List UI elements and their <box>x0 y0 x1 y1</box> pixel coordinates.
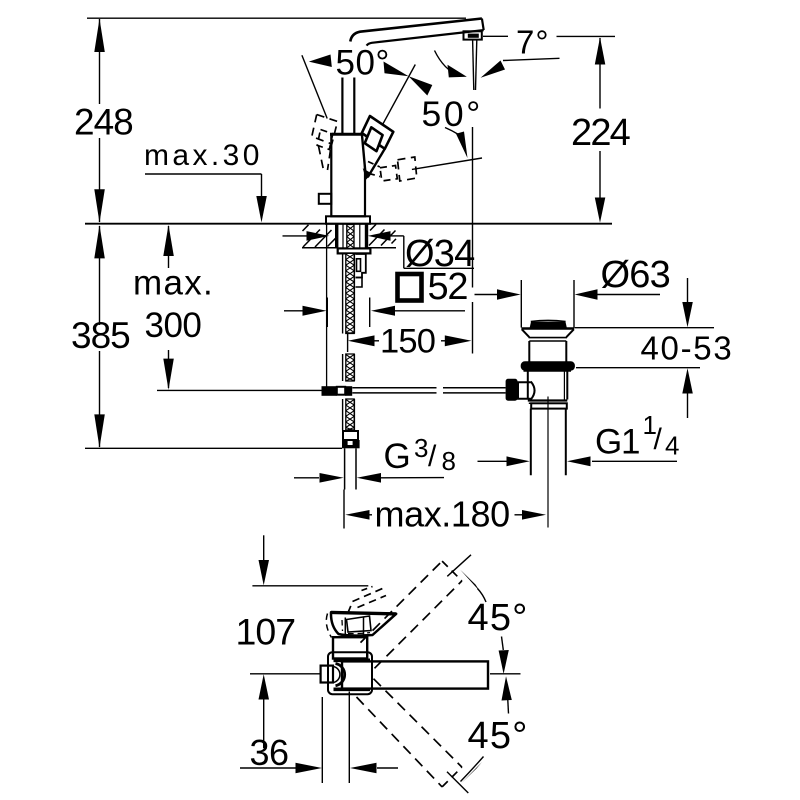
temp limiter tab left of body <box>319 194 332 204</box>
50deg leader L3 (dashed handle lowered axis) <box>412 158 482 169</box>
45deg lower leg line <box>447 772 468 793</box>
svg-text:max.: max. <box>133 264 214 303</box>
drain center line <box>547 397 549 528</box>
dim 224 line <box>599 38 601 109</box>
G3/8 right arrow <box>357 473 381 483</box>
O63 right arrow <box>575 289 598 299</box>
52 right arrow <box>371 306 395 316</box>
7deg arrowhead right <box>481 61 505 78</box>
plan base plate rounded square <box>328 652 372 694</box>
mounting washer under counter <box>338 248 371 253</box>
hose break center line <box>347 334 349 341</box>
50deg bowtie right triangle <box>409 76 433 95</box>
spout bottom edge <box>367 30 484 45</box>
svg-text:Ø63: Ø63 <box>601 254 670 296</box>
150 right arrow <box>445 335 472 346</box>
dim 36 line left <box>240 767 297 769</box>
rubber seal black band <box>521 361 575 370</box>
dimension max.300 line <box>168 226 170 268</box>
pop-up rod long line <box>157 389 322 391</box>
50deg no1 left arrowhead <box>309 55 332 68</box>
plan center line left <box>250 673 322 675</box>
counter top line <box>85 223 612 225</box>
aerator dark band <box>468 34 479 38</box>
385 top arrow <box>94 225 105 258</box>
rod fitting black parts <box>322 386 360 448</box>
max30 down arrow <box>256 196 267 223</box>
45deg upper leg line <box>447 555 471 577</box>
plug cap black band <box>530 322 567 328</box>
dashed handle lowered knob <box>398 157 417 181</box>
svg-text:3: 3 <box>414 433 428 463</box>
faucet body top edge thick <box>330 133 366 136</box>
50deg bowtie left triangle <box>384 62 409 77</box>
vertical pipe <box>341 78 343 135</box>
248 top arrow <box>94 19 105 52</box>
G3/8 left arrow <box>320 473 344 483</box>
svg-text:/: / <box>654 423 663 456</box>
G1 1/4 dim line left <box>478 460 509 462</box>
dashed handle lowered inner square <box>380 166 397 182</box>
plan center line right <box>490 673 521 675</box>
dashed bar lower cap <box>442 767 462 787</box>
svg-text:150: 150 <box>380 323 435 361</box>
svg-text:385: 385 <box>71 315 130 356</box>
dimension 248 line <box>99 19 101 104</box>
45 upper centerline arrowhead <box>499 650 509 674</box>
extension line bottom of supply hose (385 level) <box>85 447 342 449</box>
braid column in shank <box>347 225 354 249</box>
rod fitting white square <box>337 387 345 395</box>
extension lines 52 <box>326 298 328 328</box>
45 upper leg arrowhead <box>460 570 481 593</box>
handle wedge tip black <box>364 169 371 178</box>
max180 dim line left <box>368 514 372 516</box>
7deg leader right / 224 top extension <box>557 35 616 37</box>
O63 dim line right <box>596 294 660 296</box>
svg-text:224: 224 <box>571 112 631 154</box>
7deg arc left <box>435 51 460 76</box>
7deg right arrow leader <box>503 58 560 60</box>
plan handle dashed outline left <box>326 614 331 638</box>
aerator box <box>464 31 482 39</box>
plan handle inner dashes <box>342 620 370 634</box>
107 top arrow <box>259 560 270 585</box>
plan dashed spout positions <box>349 561 462 787</box>
svg-text:40-53: 40-53 <box>641 330 734 367</box>
tailpipe <box>530 409 532 476</box>
braid crosshatch <box>346 226 354 431</box>
hose outlines <box>342 253 344 333</box>
svg-text:50°: 50° <box>422 94 483 134</box>
faucet body <box>331 134 365 216</box>
O34 left arrow <box>307 231 330 241</box>
45deg lower arc to text <box>461 757 484 782</box>
plan fixture <box>321 612 488 694</box>
hatch left zone <box>303 225 336 247</box>
G3/8 dim line right and underline <box>381 477 444 479</box>
G1 1/4 right arrow (points left) <box>567 456 591 466</box>
dashed handle plan bits <box>353 589 387 608</box>
mounting bracket right <box>356 254 366 278</box>
40-53 bottom extension <box>576 367 700 369</box>
svg-text:7°: 7° <box>516 23 550 60</box>
224 top arrow <box>595 37 606 64</box>
plan spout bar <box>342 661 488 688</box>
svg-text:8: 8 <box>442 446 456 476</box>
36 right arrow <box>350 763 377 774</box>
50deg leader L1 (dashed handle up axis) <box>302 55 327 118</box>
40-53 down arrow <box>682 302 693 327</box>
plan body circle arc small <box>334 667 340 683</box>
svg-text:50°: 50° <box>336 44 390 83</box>
counter bottom line near shank <box>302 247 337 249</box>
plan handle inner solid quad <box>347 616 372 632</box>
dim line 52 <box>284 310 303 312</box>
handle knob inner square <box>365 127 383 151</box>
cone lines <box>529 337 567 339</box>
40-53 top extension <box>575 327 715 329</box>
dashed bar upper edges <box>361 561 443 643</box>
max.30 leader underline <box>145 173 262 175</box>
max180 left arrow <box>345 510 369 520</box>
G1 1/4 dim line right underline <box>592 460 677 462</box>
O63 left arrow <box>497 289 521 299</box>
svg-text:/: / <box>428 440 437 473</box>
drain upper extension lines (O63) <box>520 280 522 328</box>
shank inner thin lines <box>342 225 344 249</box>
extension line top (spout tip level) <box>87 17 466 19</box>
knob bracket <box>518 382 531 399</box>
hatch right zone <box>369 224 396 245</box>
dashed handle raised position knob <box>312 115 338 145</box>
spout end cap <box>482 19 484 31</box>
40-53 arrow stems <box>687 278 689 303</box>
svg-text:G: G <box>384 437 411 476</box>
385 bottom arrow <box>94 414 105 447</box>
center line axis (150 dim) <box>347 327 349 353</box>
45 lower centerline arrowhead <box>502 676 512 700</box>
dim line 150 <box>374 340 379 342</box>
square symbol 52 <box>398 274 422 301</box>
svg-text:300: 300 <box>145 306 202 345</box>
extension line from aerator (150 dim) <box>472 127 474 288</box>
compression nut upper <box>343 431 358 440</box>
dashed bar upper cap <box>442 561 462 581</box>
nipple pipe lines <box>344 448 346 489</box>
G1 1/4 left arrow (points right) <box>507 456 530 466</box>
shank outer walls in counter <box>335 225 338 249</box>
G3/8 dim line left <box>294 477 319 479</box>
max300 bottom arrow <box>163 359 174 390</box>
pop-up rod horizontal (double line) <box>352 387 436 389</box>
plan body square <box>333 637 367 658</box>
dimension 385 line <box>99 226 101 325</box>
dashed handle raised wedge lines <box>319 146 331 170</box>
body under seal <box>524 370 572 372</box>
svg-text:36: 36 <box>250 732 289 773</box>
40-53 up arrow <box>682 368 693 393</box>
50deg arc2 segment <box>445 128 459 135</box>
svg-text:45°: 45° <box>468 715 529 757</box>
dim 107 line top <box>263 535 265 561</box>
O63 dim line left <box>475 294 499 296</box>
107 bottom arrow <box>259 674 270 699</box>
spout top edge <box>350 19 482 42</box>
base plate <box>326 216 370 224</box>
plan arrowheads <box>259 560 512 783</box>
224 bottom arrow <box>595 198 606 223</box>
pop-up vertical rod <box>326 225 328 388</box>
dashed handle raised inner square <box>317 130 333 150</box>
svg-text:max.30: max.30 <box>144 139 263 172</box>
plan spout thick overlap bands <box>334 658 371 662</box>
dim line Ø34 <box>283 235 308 237</box>
plan top extension line (107) <box>252 585 368 587</box>
45deg upper-to-centerline stem <box>502 637 504 651</box>
O34 right arrow <box>368 231 391 241</box>
svg-text:52: 52 <box>428 266 468 308</box>
svg-text:248: 248 <box>74 102 133 143</box>
50deg no2 arc arrowhead <box>456 132 468 159</box>
svg-text:max.180: max.180 <box>375 494 510 535</box>
side knob <box>506 379 518 401</box>
supply nipple extension to max180 <box>343 490 345 529</box>
handle knob outer <box>362 116 394 149</box>
7deg arc arrowhead left <box>448 65 467 78</box>
max180 dim line right <box>515 514 529 516</box>
150 left arrow <box>348 335 375 346</box>
flange cone sides <box>522 329 574 337</box>
dashed handle lowered wedge lines <box>368 162 380 177</box>
dashed bar lower edges <box>357 697 443 787</box>
plan rear tab <box>321 666 333 683</box>
7deg leader left <box>483 35 508 37</box>
45 lower leg arrowhead <box>461 762 482 783</box>
248 bottom arrow <box>94 189 105 222</box>
flange top edge <box>521 327 574 330</box>
36 left arrow <box>296 763 323 774</box>
handle wedge <box>362 133 385 177</box>
compression nut black band <box>342 440 360 448</box>
36 extension lines <box>321 697 323 783</box>
dim 36 line right <box>377 767 398 769</box>
plug cap top curve <box>531 320 566 321</box>
50deg leader L2 (solid handle axis) <box>382 65 416 127</box>
svg-text:45°: 45° <box>468 597 529 639</box>
svg-text:G1: G1 <box>595 423 639 462</box>
plan handle paddle outline <box>331 612 396 635</box>
dim 107 line bottom <box>263 699 265 748</box>
plan body circle arc big <box>336 664 345 686</box>
water stream lines <box>473 40 474 91</box>
max300 top arrow <box>163 225 174 256</box>
svg-text:107: 107 <box>236 611 296 653</box>
max180 right arrow <box>522 510 546 520</box>
plan handle paddle top edge thick <box>331 612 396 614</box>
svg-text:4: 4 <box>665 431 679 461</box>
52 left arrow <box>303 306 327 316</box>
45deg lower-to-centerline stem <box>507 700 510 714</box>
neck sides <box>528 341 530 362</box>
45deg upper arc to text <box>478 589 487 603</box>
bottom cap lines <box>528 399 568 401</box>
